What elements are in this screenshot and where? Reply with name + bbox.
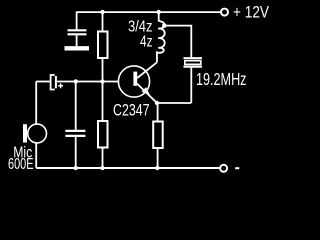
capacitor C3 xyxy=(65,82,85,169)
node bottom rail R3 xyxy=(155,166,159,170)
resistor R2 xyxy=(98,82,108,169)
node signal C3 xyxy=(74,79,78,83)
transistor Q1 C2347 xyxy=(118,62,157,103)
label +12V xyxy=(233,3,270,22)
resistor R1 xyxy=(98,12,108,81)
node bottom rail C3 xyxy=(74,166,78,170)
label minus xyxy=(235,167,239,169)
svg-text:19.2MHz: 19.2MHz xyxy=(196,69,247,89)
svg-text:+ 12V: + 12V xyxy=(233,3,270,22)
wire bottom rail xyxy=(36,167,220,169)
label 19.2MHz xyxy=(196,69,247,89)
capacitor C2 electrolytic xyxy=(51,75,63,90)
node top rail R1 xyxy=(100,10,104,14)
resistor R3 xyxy=(153,103,163,168)
terminal minus xyxy=(220,165,227,172)
microphone Mic 600E xyxy=(23,82,47,169)
node top rail coil xyxy=(157,10,161,14)
svg-text:600E: 600E xyxy=(8,156,34,173)
wire coil tap to crystal xyxy=(164,26,191,58)
node emitter xyxy=(155,101,159,105)
label 4z xyxy=(140,34,153,51)
wire top rail xyxy=(76,11,221,13)
node signal R1 R2 xyxy=(100,79,104,83)
wire emitter to crystal xyxy=(157,102,191,104)
inductor L1 xyxy=(157,12,165,62)
node coil tap xyxy=(162,23,167,28)
crystal X1 19.2MHz xyxy=(184,58,203,103)
terminal +12V xyxy=(221,9,228,16)
label 3/4z xyxy=(128,18,153,35)
capacitor C1 xyxy=(65,12,90,48)
label Mic xyxy=(13,144,32,161)
svg-text:4z: 4z xyxy=(140,34,153,51)
svg-text:C2347: C2347 xyxy=(113,101,150,120)
label 600E xyxy=(8,156,34,173)
wire mic to C2 xyxy=(36,81,50,83)
wire C2 to base xyxy=(57,81,119,83)
node bottom rail R2 xyxy=(100,166,104,170)
label C2347 xyxy=(113,101,150,120)
